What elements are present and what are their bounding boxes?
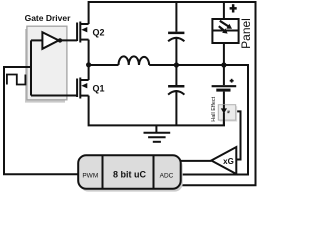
- svg-text:Q2: Q2: [93, 28, 105, 38]
- svg-text:Hall Effect: Hall Effect: [211, 96, 217, 121]
- svg-text:ADC: ADC: [160, 173, 174, 180]
- svg-text:PWM: PWM: [82, 173, 98, 180]
- svg-text:Gate Driver: Gate Driver: [25, 13, 72, 23]
- svg-text:8 bit uC: 8 bit uC: [113, 170, 146, 180]
- svg-text:Panel: Panel: [239, 18, 253, 49]
- svg-text:xG: xG: [223, 157, 234, 166]
- svg-text:Q1: Q1: [93, 84, 105, 94]
